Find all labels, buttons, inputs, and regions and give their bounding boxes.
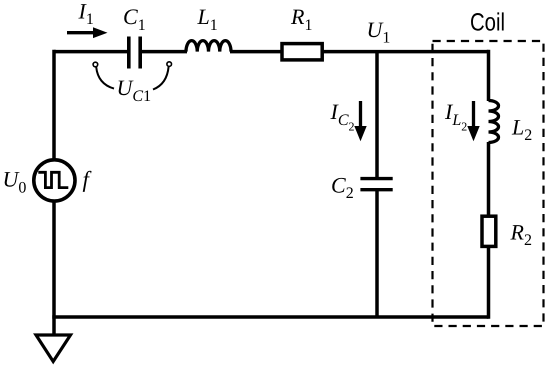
svg-text:Coil: Coil (470, 9, 505, 37)
wire left vertical upper (source to top wire) (52, 50, 56, 159)
source U0 (square-wave generator) (34, 160, 75, 201)
ground (36, 335, 71, 362)
capacitor C2 (360, 179, 392, 190)
inductor L2 (489, 101, 499, 143)
resistor R2 (482, 216, 496, 246)
capacitor C1 (129, 37, 140, 69)
resistor R1 (282, 44, 322, 60)
arrow I1 (67, 27, 108, 38)
wire C2 branch upper (375, 52, 379, 178)
wire right branch lower (R2 to bottom rail) (487, 248, 491, 319)
wire C2 branch lower (375, 191, 379, 318)
wire left vertical lower (source to ground) (52, 203, 56, 335)
coil dashed box (433, 41, 544, 326)
wire bottom rail (52, 315, 488, 319)
wire C1 to L1 (141, 50, 187, 54)
wire top-left segment (54, 50, 128, 54)
wire right branch upper (487, 50, 491, 101)
arrow IC2 (354, 101, 366, 141)
arrow IL2 (467, 101, 479, 141)
wire R1 to top-right corner (through node U1) (323, 50, 489, 54)
wire L1 to R1 (230, 50, 281, 54)
UC1 measurement arc with terminals (93, 62, 171, 90)
inductor L1 (186, 41, 231, 52)
wire right branch middle (L2 to R2) (487, 142, 491, 215)
